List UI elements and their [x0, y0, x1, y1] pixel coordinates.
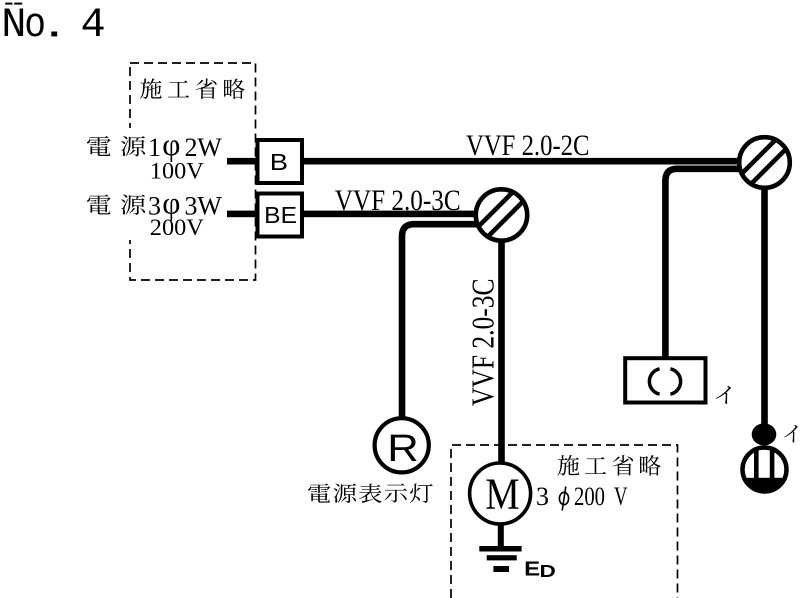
wire B to right joint box: [304, 158, 740, 165]
svg-text:B: B: [270, 149, 288, 175]
label ED: [524, 559, 556, 582]
ceiling fixture box ( ) イ: [625, 358, 705, 402]
svg-text:3: 3: [536, 482, 549, 511]
svg-text:200V: 200V: [150, 215, 204, 241]
wire J2 to switch イ: [665, 169, 741, 358]
label イ (fixture): [716, 386, 731, 404]
svg-text:M: M: [485, 469, 519, 519]
joint box J1 (middle, hatched circle): [475, 188, 528, 241]
label 施工省略 (bottom): [558, 455, 661, 476]
motor M: [470, 463, 531, 524]
lamp receptacle イ: [740, 423, 790, 493]
svg-text:V: V: [614, 482, 628, 511]
svg-text:BE: BE: [264, 202, 297, 228]
joint box J2 (right, hatched circle): [738, 136, 790, 188]
svg-text:R: R: [387, 427, 419, 470]
wire stub into breaker B: [227, 158, 257, 165]
svg-text:N: N: [1, 1, 26, 49]
svg-text:VVF 2.0-3C: VVF 2.0-3C: [465, 279, 501, 407]
svg-text:VVF 2.0-3C: VVF 2.0-3C: [335, 185, 461, 217]
dashed box: upper source 施工省略: [130, 63, 256, 280]
breaker BE: [258, 194, 303, 237]
wire J1 down to motor M: [498, 239, 505, 463]
label 電源表示灯: [308, 483, 433, 503]
white mask behind source labels: [84, 128, 232, 240]
label 施工省略 (upper): [140, 78, 245, 99]
svg-text:VVF 2.0-2C: VVF 2.0-2C: [466, 130, 590, 162]
pilot lamp R: [375, 418, 429, 472]
label 電源 3φ3W 200V: [87, 186, 222, 241]
dashed box: motor 施工省略 (bottom): [451, 445, 678, 598]
svg-text:200: 200: [574, 482, 605, 511]
svg-text:φ: φ: [162, 127, 180, 162]
wire middle joint box to pilot lamp R: [402, 224, 478, 419]
title No. 4: [1, 1, 105, 49]
svg-text:4: 4: [81, 1, 106, 49]
label 3φ200 V: [536, 482, 628, 511]
label イ (lamp): [784, 425, 797, 443]
label 電源 1φ2W 100V: [87, 127, 222, 184]
wire M to ground: [498, 524, 504, 546]
wire stub into breaker BE: [227, 211, 257, 218]
svg-text:100V: 100V: [150, 159, 204, 185]
svg-text:o: o: [24, 1, 46, 49]
svg-text:D: D: [540, 561, 556, 581]
wire BE to middle joint box: [304, 211, 478, 218]
wire J2 down to lamp receptacle: [761, 189, 768, 427]
ground symbol (D-type earth): [479, 546, 521, 572]
breaker B: [258, 140, 303, 183]
svg-text:E: E: [524, 559, 540, 581]
